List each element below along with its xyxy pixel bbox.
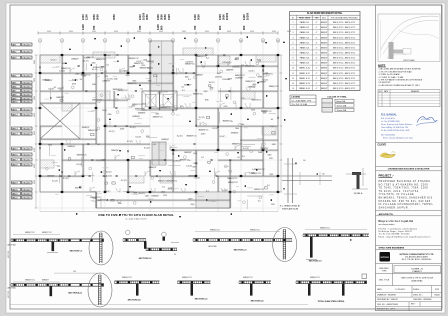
svg-text:PANEL NAME: PANEL NAME: [299, 17, 311, 20]
svg-text:6: 6: [293, 47, 294, 49]
svg-text:10MM@6": 10MM@6": [56, 97, 64, 99]
svg-text:AB18: AB18: [12, 163, 18, 166]
svg-text:S-2 (4"): S-2 (4"): [76, 164, 82, 166]
svg-text:KEY PLAN: KEY PLAN: [404, 59, 415, 62]
svg-text:8: 8: [293, 58, 294, 60]
svg-text:PANEL S-7: PANEL S-7: [300, 51, 309, 54]
svg-text:S-1: S-1: [180, 106, 183, 108]
svg-text:8MM@6": 8MM@6": [321, 22, 328, 24]
svg-text:Lic. No. STR/BLP/058: Lic. No. STR/BLP/058: [381, 121, 400, 123]
svg-text:S-1: S-1: [206, 190, 209, 192]
svg-text:7: 7: [173, 40, 174, 42]
svg-text:1200: 1200: [242, 14, 246, 20]
svg-text:TOTAL SLAB STEEL DETAIL: TOTAL SLAB STEEL DETAIL: [317, 300, 345, 303]
svg-text:8MM@6"C/C: 8MM@6"C/C: [193, 94, 204, 96]
svg-text:1220: 1220: [163, 195, 167, 197]
svg-text:4: 4: [293, 37, 294, 39]
svg-text:1220: 1220: [224, 106, 228, 108]
svg-text:DRG. TITLE: DRG. TITLE: [379, 279, 390, 281]
svg-text:10200: 10200: [225, 12, 229, 20]
svg-text:S-5 (4"): S-5 (4"): [171, 150, 177, 152]
svg-text:2440: 2440: [145, 196, 149, 198]
svg-text:3050: 3050: [96, 14, 100, 20]
svg-text:AB19: AB19: [12, 181, 18, 184]
svg-text:S-1: S-1: [97, 144, 100, 146]
svg-text:1220: 1220: [269, 158, 273, 160]
svg-text:10200: 10200: [142, 12, 146, 20]
svg-text:2440: 2440: [81, 14, 85, 20]
svg-text:8MM @ 6"C/C + 8MM @ 6"C/C: 8MM @ 6"C/C + 8MM @ 6"C/C: [333, 32, 356, 34]
svg-text:8MM@6"C/C: 8MM@6"C/C: [199, 129, 210, 131]
svg-text:230x450: 230x450: [22, 197, 31, 199]
svg-text:TYPE: TYPE: [382, 271, 388, 273]
svg-text:2: 2: [62, 40, 63, 42]
svg-text:8MM@9"C/C: 8MM@9"C/C: [228, 182, 239, 184]
svg-text:SECTION: SECTION: [8, 250, 10, 258]
svg-text:NOTE: NOTE: [378, 63, 386, 67]
floor plan outer boundary: [40, 55, 278, 208]
svg-text:S-3: S-3: [258, 60, 261, 62]
svg-text:5. THE TOP BARS TO BE BENT AT: 5. THE TOP BARS TO BE BENT AT L/4 FROM F…: [379, 79, 424, 82]
svg-text:R.C. BEAM DETAIL AT: R.C. BEAM DETAIL AT: [280, 205, 301, 208]
svg-text:230x450: 230x450: [22, 44, 31, 46]
svg-text:AB20: AB20: [12, 188, 18, 191]
svg-text:CHKD. BY :-: CHKD. BY :-: [413, 294, 423, 296]
svg-text:1220: 1220: [104, 76, 108, 78]
svg-text:8MM @ 6"C/C + 8MM @ 6"C/C: 8MM @ 6"C/C + 8MM @ 6"C/C: [333, 42, 356, 44]
svg-text:Nr Malviya Nagar, Jaipur 30201: Nr Malviya Nagar, Jaipur 302017: [379, 230, 413, 233]
svg-text:8MM@6": 8MM@6": [321, 37, 328, 39]
svg-text:PANEL S-9: PANEL S-9: [300, 62, 309, 65]
svg-text:2: 2: [293, 27, 294, 29]
svg-text:SECTION 4-4: SECTION 4-4: [251, 300, 265, 303]
title block table: [376, 263, 442, 265]
svg-text:S-2 (4"): S-2 (4"): [63, 178, 69, 180]
svg-text:LEGEND: LEGEND: [292, 97, 301, 99]
svg-text:10MM@9": 10MM@9": [184, 84, 192, 86]
svg-text:8MM@9"C/C: 8MM@9"C/C: [161, 107, 172, 109]
svg-text:8MM @ 6"C/C + 8MM @ 6"C/C: 8MM @ 6"C/C + 8MM @ 6"C/C: [333, 47, 356, 49]
plan interior walls: [40, 72, 150, 74]
svg-text:3050: 3050: [160, 14, 164, 20]
svg-text:2440: 2440: [108, 114, 112, 116]
svg-text:REMARKS: REMARKS: [411, 90, 420, 93]
svg-text:S-2 (4"): S-2 (4"): [209, 82, 215, 84]
svg-text:S-1: S-1: [181, 87, 184, 89]
svg-text:1200: 1200: [85, 14, 89, 20]
svg-text:EVTECH CONSULTANTS PVT. LTD: EVTECH CONSULTANTS PVT. LTD: [400, 253, 434, 256]
svg-text:8MM@9"C/C: 8MM@9"C/C: [235, 75, 246, 77]
svg-text:AB21: AB21: [12, 192, 18, 195]
svg-text:2440: 2440: [143, 60, 147, 62]
svg-text:14: 14: [292, 88, 294, 90]
svg-text:230x450: 230x450: [22, 159, 31, 161]
svg-text:S-1: S-1: [271, 119, 274, 121]
svg-text:S-2 (4"): S-2 (4"): [121, 180, 127, 182]
beam section 2-2 stepped: [125, 230, 130, 235]
svg-text:PANEL S-11: PANEL S-11: [299, 72, 309, 75]
svg-text:8MM@9": 8MM@9": [42, 280, 49, 282]
svg-text:10MM@6": 10MM@6": [184, 152, 192, 154]
svg-text:SLAB REINFORCEMENT DETAIL: SLAB REINFORCEMENT DETAIL: [307, 12, 343, 15]
svg-text:B.E. (Civil) M.I.E.: B.E. (Civil) M.I.E.: [381, 118, 396, 120]
svg-text:3050: 3050: [34, 131, 36, 135]
svg-text:230x450: 230x450: [22, 51, 31, 53]
svg-text:PHASE II: PHASE II: [412, 270, 422, 273]
svg-text:760: 760: [193, 25, 197, 30]
svg-text:2440: 2440: [92, 63, 96, 65]
svg-text:S-1: S-1: [98, 200, 101, 202]
svg-text:230x450: 230x450: [22, 57, 31, 59]
svg-text:S-1 (4"): S-1 (4"): [83, 60, 89, 62]
svg-text:CHUNNAKHADI BUILDERS & DEVELOP: CHUNNAKHADI BUILDERS & DEVELOPER: [388, 168, 430, 171]
svg-text:1200: 1200: [193, 14, 197, 20]
svg-text:CHECKED : VERIFIED: CHECKED : VERIFIED: [413, 299, 432, 301]
svg-text:1220: 1220: [141, 65, 145, 67]
svg-text:10MM@6": 10MM@6": [235, 77, 243, 79]
svg-text:1220x910: 1220x910: [232, 67, 239, 69]
section marker triangles: [94, 38, 96, 40]
svg-text:150: 150: [322, 174, 325, 176]
svg-text:8MM @ 6"C/C + 8MM @ 6"C/C: 8MM @ 6"C/C + 8MM @ 6"C/C: [333, 63, 356, 65]
svg-text:8MM@6"C/C: 8MM@6"C/C: [255, 169, 266, 171]
svg-text:230x450: 230x450: [22, 75, 31, 77]
svg-text:3050: 3050: [114, 31, 118, 33]
svg-text:8MM@9"C/C: 8MM@9"C/C: [269, 86, 280, 88]
svg-text:2440: 2440: [142, 104, 146, 106]
svg-text:SANGANER JAIPUR.: SANGANER JAIPUR.: [379, 206, 410, 209]
svg-text:1200: 1200: [156, 14, 160, 20]
svg-text:1525: 1525: [218, 14, 222, 20]
svg-text:3050: 3050: [159, 31, 163, 33]
svg-text:230x450: 230x450: [22, 114, 31, 116]
svg-text:8MM@6": 8MM@6": [321, 47, 328, 49]
svg-text:S-1: S-1: [54, 87, 57, 89]
svg-text:8MM@9"C/C: 8MM@9"C/C: [187, 136, 198, 138]
svg-text:SLAB DETAIL: SLAB DETAIL: [411, 280, 423, 283]
svg-text:8MM@9"C/C: 8MM@9"C/C: [254, 189, 265, 191]
svg-text:8@6: 8@6: [75, 188, 79, 190]
svg-text:3050: 3050: [182, 31, 186, 33]
svg-text:8MM@6"C/C: 8MM@6"C/C: [88, 130, 99, 132]
svg-text:8MM@6"C/C: 8MM@6"C/C: [320, 227, 331, 229]
svg-text:900: 900: [218, 25, 222, 30]
svg-text:230x450: 230x450: [22, 154, 31, 156]
architects block: [376, 210, 442, 212]
svg-text:10@9: 10@9: [201, 133, 206, 135]
svg-text:R.A.B: R.A.B: [435, 293, 441, 296]
svg-text:10MM@6": 10MM@6": [132, 116, 140, 118]
svg-text:S-5 (4"): S-5 (4"): [139, 193, 145, 195]
svg-text:Ph No. 01482-232456 R.No. 303: Ph No. 01482-232456 R.No. 3032: [381, 130, 410, 132]
client section: [376, 141, 442, 143]
svg-text:8MM@6": 8MM@6": [321, 83, 328, 85]
svg-text:8@6: 8@6: [72, 84, 76, 86]
svg-text:S-1: S-1: [237, 157, 240, 159]
svg-text:PANEL S-13: PANEL S-13: [299, 82, 310, 85]
svg-text:NO.7387 & AT KHASRA NO. 22: NO.7387 & AT KHASRA NO. 2209: [379, 183, 429, 186]
svg-text:8@6: 8@6: [193, 153, 197, 155]
svg-text:8@6: 8@6: [48, 144, 52, 146]
svg-text:8MM@6"C/C: 8MM@6"C/C: [251, 100, 262, 102]
plan columns: [61, 54, 64, 56]
key plan: [378, 14, 440, 62]
svg-text:PROJECT NO. : A T S: PROJECT NO. : A T S: [377, 308, 396, 311]
beam section A-A: [54, 272, 104, 274]
svg-text:AB13: AB13: [12, 127, 18, 130]
svg-text:BOT.: BOT.: [322, 18, 327, 20]
extra partitions: [80, 157, 82, 166]
svg-text:S-1: S-1: [202, 67, 205, 69]
builders header: [376, 166, 442, 168]
svg-text:8MM @ 6"C/C + 8MM @ 6"C/C: 8MM @ 6"C/C + 8MM @ 6"C/C: [333, 22, 356, 24]
svg-text:230x450: 230x450: [22, 109, 31, 111]
svg-text:230x450: 230x450: [22, 128, 31, 130]
svg-text:8MM@6"C/C: 8MM@6"C/C: [135, 108, 146, 110]
grid bubbles: [38, 39, 42, 43]
rc beam crossing detail: [287, 158, 289, 203]
svg-text:S-5 (4"): S-5 (4"): [249, 71, 255, 73]
svg-text:8MM@6": 8MM@6": [321, 27, 328, 29]
svg-text:8MM@9"C/C: 8MM@9"C/C: [245, 65, 256, 67]
beam section 2-2 long: [195, 231, 280, 233]
svg-text:10MM@6": 10MM@6": [67, 146, 75, 148]
svg-text:11: 11: [262, 40, 264, 42]
svg-text:8MM @ 6"C/C + 8MM @ 6"C/C: 8MM @ 6"C/C + 8MM @ 6"C/C: [333, 58, 356, 60]
svg-text:S-3: S-3: [80, 79, 83, 81]
svg-text:8MM @ 6"C/C + 8MM @ 6"C/C: 8MM @ 6"C/C + 8MM @ 6"C/C: [333, 83, 356, 85]
svg-text:DESIGNED BY : KISHOR: DESIGNED BY : KISHOR: [377, 299, 398, 301]
svg-text:10MM@6": 10MM@6": [149, 167, 157, 169]
svg-text:8MM@6"C/C: 8MM@6"C/C: [197, 56, 208, 58]
svg-text:AB12: AB12: [12, 113, 18, 116]
svg-text:10MM@6": 10MM@6": [138, 113, 146, 115]
svg-text:TO 7643, 7354/7363, 7364,: TO 7643, 7354/7363, 7364, 2209: [379, 188, 429, 190]
svg-text:8@6: 8@6: [193, 167, 197, 169]
svg-text:DETAIL A: DETAIL A: [354, 192, 363, 195]
svg-text:2440: 2440: [118, 203, 122, 205]
svg-text:8MM @ 6"C/C + 8MM @ 6"C/C: 8MM @ 6"C/C + 8MM @ 6"C/C: [333, 88, 356, 90]
svg-text:OF SUPPORT.: OF SUPPORT.: [379, 82, 392, 84]
svg-text:S-5 (4"): S-5 (4"): [135, 136, 141, 138]
svg-text:SECTION: SECTION: [8, 290, 10, 298]
svg-text:8MM@6": 8MM@6": [321, 63, 328, 65]
svg-text:TO 2213, 2214, 7417/2764,: TO 2213, 2214, 7417/2764,: [379, 191, 420, 193]
svg-text:4: 4: [105, 40, 106, 42]
svg-text:SECTION 2-2: SECTION 2-2: [195, 299, 209, 301]
svg-text:8MM@9"C/C: 8MM@9"C/C: [227, 178, 238, 180]
svg-text:230x450: 230x450: [22, 86, 31, 88]
svg-text:8MM@6": 8MM@6": [321, 58, 328, 60]
svg-text:1220x910: 1220x910: [222, 79, 229, 81]
svg-text:8@6: 8@6: [205, 99, 209, 101]
svg-text:S-2 (4"): S-2 (4"): [199, 117, 205, 119]
svg-text:S-1 = SLAB PANEL TYPE: S-1 = SLAB PANEL TYPE: [292, 99, 312, 102]
svg-text:M.I.G. COLONY B-204 :- 9829065: M.I.G. COLONY B-204 :- 9829065410: [402, 259, 432, 261]
svg-text:S-1: S-1: [141, 89, 144, 91]
svg-text:8@6: 8@6: [251, 109, 255, 111]
svg-text:8MM@6": 8MM@6": [321, 32, 328, 34]
svg-text:AB16: AB16: [12, 153, 18, 156]
svg-text:1220: 1220: [271, 204, 275, 206]
svg-text:SECTION 2-2: SECTION 2-2: [139, 258, 153, 260]
svg-text:10MM@9": 10MM@9": [71, 59, 79, 61]
svg-text:2440: 2440: [75, 74, 79, 76]
plan left dimension chain: [35, 55, 37, 208]
svg-text:PROJECT :-: PROJECT :-: [379, 174, 394, 178]
svg-text:900: 900: [242, 25, 246, 30]
svg-text:2440: 2440: [102, 160, 106, 162]
svg-text:S-1 (4"): S-1 (4"): [137, 61, 143, 63]
svg-text:8MM@6"C/C: 8MM@6"C/C: [134, 63, 145, 65]
svg-text:STAIRCASE SLAB: STAIRCASE SLAB: [282, 207, 299, 210]
svg-text:1: 1: [40, 40, 41, 42]
svg-text:S-1: S-1: [258, 200, 261, 202]
svg-text:150: 150: [73, 271, 76, 273]
svg-text:8MM@6"C/C: 8MM@6"C/C: [96, 59, 107, 61]
svg-text:3: 3: [293, 32, 294, 34]
svg-text:10MM@6": 10MM@6": [151, 195, 159, 197]
svg-text:S-5 (4"): S-5 (4"): [220, 136, 226, 138]
svg-text:6: 6: [150, 40, 151, 42]
svg-text:S-5 (4"): S-5 (4"): [144, 148, 150, 150]
svg-text:BUILDING: BUILDING: [380, 268, 389, 270]
svg-text:3050: 3050: [34, 113, 36, 117]
svg-text:230x450: 230x450: [22, 189, 31, 191]
svg-text:230x450: 230x450: [22, 133, 31, 135]
svg-text:Struct. Engineer and Valuer, B: Struct. Engineer and Valuer, Bhilwara: [381, 123, 413, 126]
svg-text:9: 9: [293, 63, 294, 65]
svg-text:Email : rsbansal_blp@yahoo.com: Email : rsbansal_blp@yahoo.com Jaipur: [383, 137, 414, 140]
svg-text:CLIENT:: CLIENT:: [378, 145, 387, 147]
evtech logo: [380, 252, 391, 262]
svg-text:Town: A Bldg. 23 1BE R.No.: Town: A Bldg. 23 1BE R.No. 134: [381, 126, 408, 129]
svg-text:8@6: 8@6: [253, 84, 257, 86]
svg-text:S-5 (4"): S-5 (4"): [194, 178, 200, 180]
svg-text:200: 200: [303, 160, 306, 162]
svg-text:760: 760: [92, 25, 96, 30]
svg-text:PANEL S-2: PANEL S-2: [300, 26, 309, 29]
svg-text:S-2 (4"): S-2 (4"): [177, 135, 183, 137]
svg-text:8MM@6"C/C: 8MM@6"C/C: [182, 277, 193, 279]
svg-text:TOWER - B: TOWER - B: [411, 268, 423, 270]
svg-text:3050: 3050: [69, 31, 73, 33]
svg-text:3050: 3050: [34, 180, 36, 184]
right column border: [376, 5, 442, 311]
svg-text:8@6: 8@6: [130, 67, 134, 69]
svg-text:8MM@6": 8MM@6": [321, 42, 328, 44]
svg-text:230x450: 230x450: [22, 148, 31, 150]
svg-text:S-1: S-1: [182, 90, 185, 92]
svg-text:1200: 1200: [156, 24, 160, 30]
svg-text:2440: 2440: [217, 73, 221, 75]
svg-text:4. COVER TO SLAB :- 15 MM: 4. COVER TO SLAB :- 15 MM: [379, 76, 404, 79]
structure engineers block: [376, 244, 442, 246]
svg-text:SECTION 2-2: SECTION 2-2: [234, 250, 248, 252]
svg-text:ONE TO FIVE & 7TH TO 13TH FLOO: ONE TO FIVE & 7TH TO 13TH FLOOR SLAB DET…: [98, 213, 174, 217]
svg-text:8MM@9"C/C: 8MM@9"C/C: [42, 232, 53, 234]
svg-text:9: 9: [218, 40, 219, 42]
svg-text:PANEL S-8: PANEL S-8: [300, 57, 309, 60]
svg-text:AB14: AB14: [12, 132, 18, 135]
svg-text:8MM@6"C/C: 8MM@6"C/C: [210, 229, 221, 231]
svg-text:3050: 3050: [205, 31, 209, 33]
svg-text:S-1 (4"): S-1 (4"): [92, 69, 98, 71]
svg-text:230x450: 230x450: [22, 90, 31, 92]
svg-text:1220x910: 1220x910: [215, 77, 222, 79]
plan bottom dimension line: [40, 211, 278, 213]
svg-text:S-2 (4"): S-2 (4"): [105, 191, 111, 193]
svg-text:10: 10: [240, 40, 242, 42]
svg-text:10MM@9": 10MM@9": [45, 80, 53, 82]
svg-text:TH = THK. OF SLAB: TH = THK. OF SLAB: [292, 103, 308, 106]
svg-text:8MM@9"C/C: 8MM@9"C/C: [246, 81, 257, 83]
svg-text:EVTECH: EVTECH: [381, 257, 390, 259]
svg-text:8MM@9"C/C: 8MM@9"C/C: [250, 229, 261, 231]
svg-text:8MM@6"C/C: 8MM@6"C/C: [243, 277, 254, 279]
svg-text:8@6: 8@6: [126, 75, 130, 77]
svg-text:230x450: 230x450: [22, 94, 31, 96]
svg-text:PANEL S-4: PANEL S-4: [300, 36, 309, 39]
svg-text:3050: 3050: [34, 164, 36, 168]
svg-text:10200: 10200: [246, 12, 250, 20]
svg-text:8MM @ 6"C/C + 8MM @ 6"C/C: 8MM @ 6"C/C + 8MM @ 6"C/C: [333, 27, 356, 29]
svg-text:7: 7: [293, 52, 294, 54]
svg-text:3050: 3050: [145, 14, 149, 20]
svg-text:AB10: AB10: [12, 100, 18, 103]
svg-text:BHIMGANJ, TEHSIL SANGANER D: BHIMGANJ, TEHSIL SANGANER DIS: [379, 197, 433, 200]
svg-text:2440: 2440: [138, 14, 142, 20]
svg-text:S-2 (4"): S-2 (4"): [212, 128, 218, 130]
svg-text:8MM @ 6"C/C + 8MM @ 6"C/C: 8MM @ 6"C/C + 8MM @ 6"C/C: [333, 37, 356, 39]
svg-text:SECTION 1-1: SECTION 1-1: [70, 251, 84, 253]
svg-text:PANEL S-1: PANEL S-1: [300, 21, 309, 24]
svg-text:11: 11: [292, 73, 294, 75]
svg-text:10MM@9": 10MM@9": [86, 57, 94, 59]
svg-text:8MM @ 6"C/C + 8MM @ 6"C/C: 8MM @ 6"C/C + 8MM @ 6"C/C: [333, 68, 356, 70]
svg-text:2440: 2440: [272, 144, 276, 146]
svg-text:10mm DIA: 10mm DIA: [337, 104, 347, 107]
svg-text:TOP & EXTRA STEEL PROVIDED: TOP & EXTRA STEEL PROVIDED: [330, 17, 358, 20]
svg-text:5: 5: [293, 42, 294, 44]
svg-text:1525: 1525: [167, 14, 171, 20]
svg-text:1200: 1200: [81, 24, 85, 30]
svg-text:anu chopra tandon: anu chopra tandon: [379, 223, 395, 226]
svg-text:PANEL S-14: PANEL S-14: [299, 87, 310, 90]
svg-text:AB22: AB22: [12, 196, 18, 199]
lower stair: [196, 192, 230, 208]
svg-text:3050: 3050: [92, 31, 96, 33]
svg-text:AB11: AB11: [12, 108, 18, 111]
svg-text:M a p s r c h i t e c t s pvt: M a p s r c h i t e c t s pvt. ltd.: [379, 220, 414, 223]
svg-text:8MM@6"C/C: 8MM@6"C/C: [310, 277, 321, 279]
svg-text:8MM@6": 8MM@6": [321, 78, 328, 80]
svg-text:S-1: S-1: [201, 157, 204, 159]
svg-text:8MM @ 6"C/C + 8MM @ 6"C/C: 8MM @ 6"C/C + 8MM @ 6"C/C: [333, 52, 356, 54]
detail A: [352, 172, 361, 175]
svg-text:8MM@6"C/C: 8MM@6"C/C: [25, 232, 36, 234]
svg-text:3050: 3050: [197, 14, 201, 20]
svg-text:3050: 3050: [92, 14, 96, 20]
svg-text:S-5 (4"): S-5 (4"): [130, 127, 136, 129]
svg-text:8MM@6": 8MM@6": [321, 88, 328, 90]
svg-text:10@9: 10@9: [188, 198, 193, 200]
svg-text:R.S. BANSAL: R.S. BANSAL: [381, 114, 397, 117]
svg-text:SCALE :-: SCALE :-: [413, 288, 421, 291]
svg-text:3050: 3050: [112, 14, 116, 20]
svg-text:SECTION A-A: SECTION A-A: [68, 292, 82, 295]
svg-text:ONE TO FIVE & 7TH TO 13TH FLOO: ONE TO FIVE & 7TH TO 13TH FLOOR: [401, 278, 434, 280]
